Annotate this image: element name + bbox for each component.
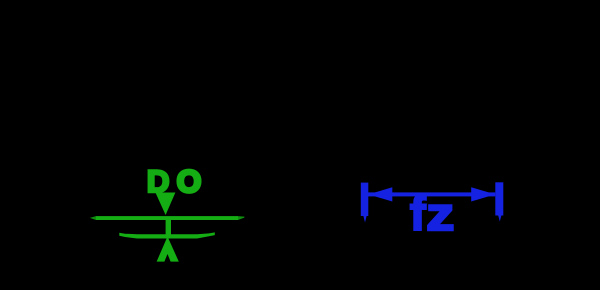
left extension bar (blue) xyxy=(361,183,369,216)
svg-text:f: f xyxy=(410,188,427,241)
svg-text:z: z xyxy=(426,189,454,240)
dimension shaft between lines xyxy=(166,219,171,235)
top lens line right tip xyxy=(238,216,244,220)
label D0 (green dimension label) xyxy=(147,163,202,199)
right arrowhead xyxy=(471,187,495,201)
top lens line (tapered) xyxy=(96,216,238,220)
top lens line left tip xyxy=(90,216,96,220)
left arrowhead xyxy=(368,187,392,201)
right extension bar (blue) xyxy=(495,182,503,215)
up arrow below bottom lens line xyxy=(157,237,179,262)
down arrow pointing to top lens line xyxy=(155,193,175,216)
svg-text:O: O xyxy=(177,163,202,199)
left bar tail xyxy=(363,216,366,223)
right bar tail xyxy=(498,216,501,222)
bottom lens line (tapered, ends raised) xyxy=(119,232,215,238)
dimension line fz xyxy=(368,192,495,196)
